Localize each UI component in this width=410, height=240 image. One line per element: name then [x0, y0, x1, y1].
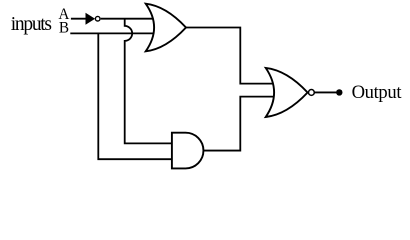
wire A from label to inverter	[71, 18, 88, 20]
NOR gate U4 bubble	[309, 90, 315, 96]
AND gate U3	[172, 133, 204, 169]
wire from inverter output junction down to AND gate input 1 with hop over B	[125, 19, 176, 144]
wire from B junction down to AND gate input 2	[98, 33, 176, 159]
wire B to OR gate input 2	[70, 32, 158, 34]
wire AND gate output to NOR gate input 2	[202, 97, 276, 151]
output terminal dot	[336, 89, 342, 95]
svg-text:B: B	[59, 20, 69, 37]
NOR gate U4 body	[266, 68, 308, 117]
inverter U1 triangle	[86, 13, 96, 25]
svg-text:inputs: inputs	[11, 14, 52, 35]
wire OR gate output to NOR gate input 1	[185, 28, 276, 84]
wire NOR bubble to output terminal	[313, 91, 339, 93]
svg-text:Output: Output	[352, 82, 403, 103]
OR gate U2	[146, 4, 186, 52]
inverter U1 bubble	[95, 16, 100, 21]
wire inverter output to OR gate input 1	[101, 18, 158, 20]
